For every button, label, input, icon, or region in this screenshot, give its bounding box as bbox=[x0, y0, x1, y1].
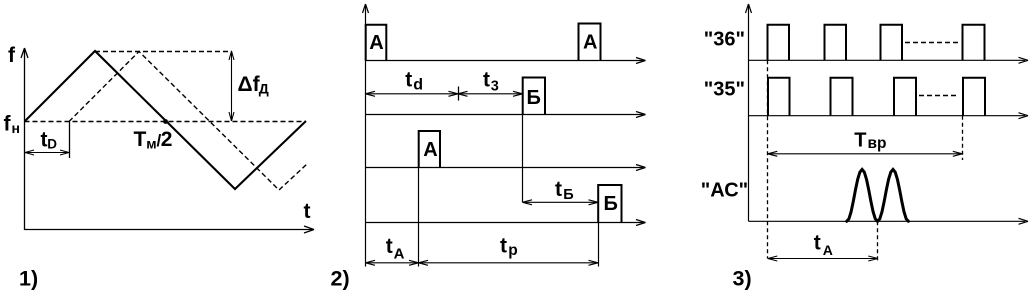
dashed continuation on 36 row bbox=[905, 42, 959, 44]
label t_р bbox=[500, 235, 518, 260]
pulse 35-4 bbox=[963, 78, 985, 116]
label t_з bbox=[483, 69, 499, 95]
t_Б dimension arrow bbox=[523, 200, 599, 205]
pulse 36-4 bbox=[963, 25, 985, 61]
guide line from pulse Б4 down bbox=[598, 223, 600, 267]
pulse 36-2 bbox=[825, 25, 847, 61]
АС axis bbox=[749, 218, 1029, 224]
t_D tick bbox=[69, 121, 71, 158]
t_р dimension arrow bbox=[419, 260, 599, 265]
svg-text:А: А bbox=[823, 242, 833, 258]
svg-text:"АС": "АС" bbox=[701, 180, 748, 202]
svg-text:t: t bbox=[304, 200, 311, 223]
dashed delayed triangular waveform bbox=[69, 52, 307, 191]
svg-text:м: м bbox=[146, 136, 156, 152]
svg-text:t: t bbox=[483, 69, 490, 92]
Δf_Д dimension arrow (vertical double) bbox=[229, 51, 234, 121]
tick between t_d and t_з bbox=[458, 87, 460, 101]
left vertical axis with arrow bbox=[363, 4, 369, 267]
svg-text:Δf: Δf bbox=[238, 73, 261, 96]
label t_А bbox=[386, 235, 405, 263]
dashed baseline f_н level bbox=[25, 121, 307, 123]
dashed guide middle (x=877.8) bbox=[877, 221, 879, 262]
dashed guide right (x=962.3) bbox=[962, 116, 964, 160]
svg-text:t: t bbox=[814, 232, 821, 255]
pulse A2 on axis 1 (right) bbox=[579, 24, 601, 61]
solid triangular waveform bbox=[25, 51, 306, 189]
label Т_вр bbox=[854, 129, 886, 152]
f axis (vertical) bbox=[21, 48, 28, 230]
svg-text:А: А bbox=[369, 32, 383, 54]
time axis 4 bbox=[366, 220, 646, 226]
t axis (horizontal) bbox=[25, 226, 315, 233]
time axis 1 bbox=[366, 58, 646, 64]
svg-text:Б: Б bbox=[527, 87, 541, 109]
svg-text:Д: Д bbox=[259, 81, 269, 97]
pulse А on axis 3 bbox=[419, 131, 440, 168]
label f_н bbox=[4, 113, 20, 137]
t_D dimension arrow bbox=[25, 150, 69, 155]
АС arch pulse 1 bbox=[847, 170, 878, 222]
pulse 36-3 bbox=[881, 25, 903, 61]
Т_вр dimension arrow bbox=[768, 151, 963, 156]
label t_Б bbox=[555, 178, 574, 203]
pulse 35-2 bbox=[831, 78, 853, 116]
guide line from pulse Б2 down bbox=[522, 115, 524, 203]
dot at crossing bbox=[163, 119, 168, 124]
svg-text:1): 1) bbox=[19, 267, 38, 291]
svg-text:А: А bbox=[583, 32, 597, 54]
t_А dimension arrow (panel 3) bbox=[768, 256, 878, 261]
svg-text:D: D bbox=[47, 137, 57, 152]
svg-text:t: t bbox=[500, 235, 507, 258]
pulse 36-1 bbox=[768, 25, 790, 61]
svg-text:f: f bbox=[4, 113, 12, 136]
svg-text:вр: вр bbox=[868, 135, 887, 152]
label t_d bbox=[405, 69, 423, 94]
pulse A1 on axis 1 bbox=[366, 25, 387, 61]
pulse Б on axis 2 bbox=[523, 78, 545, 115]
pulse 35-3 bbox=[894, 78, 916, 116]
svg-text:Т: Т bbox=[854, 129, 866, 151]
svg-text:2): 2) bbox=[331, 267, 350, 291]
svg-text:2: 2 bbox=[161, 128, 173, 151]
svg-text:d: d bbox=[413, 77, 423, 94]
label T_м/2 bbox=[134, 128, 173, 152]
dashed continuation on 35 row bbox=[919, 95, 959, 97]
svg-text:T: T bbox=[134, 128, 147, 151]
svg-text:t: t bbox=[386, 235, 393, 258]
svg-text:t: t bbox=[405, 69, 412, 92]
label t_А (panel 3) bbox=[814, 232, 833, 258]
svg-text:н: н bbox=[12, 120, 20, 136]
svg-text:А: А bbox=[423, 139, 437, 161]
svg-text:f: f bbox=[8, 44, 16, 67]
svg-text:А: А bbox=[394, 246, 405, 263]
dashed top peak level bbox=[95, 51, 232, 53]
time axis 3 bbox=[366, 165, 646, 171]
t_d dimension arrow bbox=[366, 91, 459, 96]
svg-text:t: t bbox=[555, 178, 562, 201]
svg-text:3): 3) bbox=[733, 267, 752, 291]
label t_D bbox=[41, 129, 58, 152]
svg-text:3: 3 bbox=[491, 78, 499, 94]
guide line from pulse A3 down bbox=[418, 168, 420, 267]
t_А dimension arrow bbox=[366, 260, 419, 265]
label Δf_Д bbox=[238, 73, 269, 97]
svg-text:Б: Б bbox=[563, 187, 573, 203]
dashed guide left (x=767.8) bbox=[767, 60, 769, 258]
time axis 2 bbox=[366, 112, 646, 118]
svg-text:Б: Б bbox=[604, 193, 618, 215]
vertical axis with arrow bbox=[746, 4, 752, 221]
АС arch pulse 2 bbox=[878, 170, 909, 222]
svg-text:р: р bbox=[508, 242, 517, 259]
channel 36 axis bbox=[749, 57, 1029, 63]
channel 35 axis bbox=[749, 113, 1029, 119]
t_з dimension arrow bbox=[458, 91, 523, 96]
pulse 35-1 bbox=[768, 78, 790, 116]
pulse Б on axis 4 bbox=[598, 185, 621, 223]
svg-text:"35": "35" bbox=[704, 78, 745, 100]
svg-text:"36": "36" bbox=[704, 28, 745, 50]
